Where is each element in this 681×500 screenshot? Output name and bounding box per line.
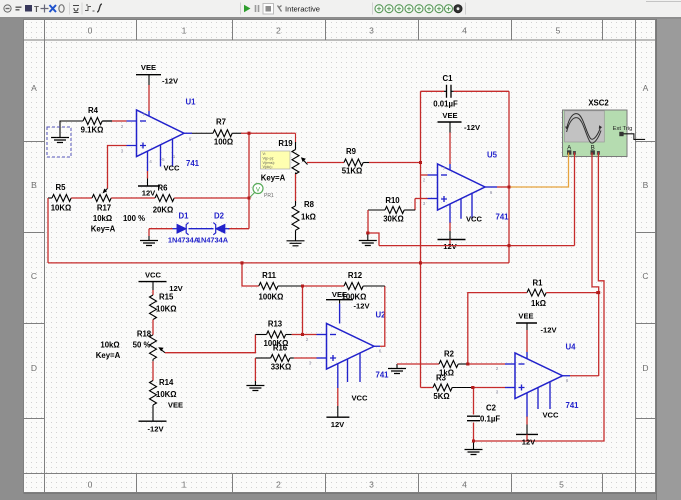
svg-text:Ext Trig: Ext Trig bbox=[613, 126, 633, 132]
wire scope B- down to ground rail bbox=[474, 153, 605, 442]
svg-text:4: 4 bbox=[462, 480, 467, 490]
svg-text:R17: R17 bbox=[97, 204, 111, 213]
svg-text:5KΩ: 5KΩ bbox=[433, 392, 449, 401]
svg-text:741: 741 bbox=[495, 213, 509, 222]
svg-text:R1: R1 bbox=[533, 279, 544, 288]
wire U5 minus pin bbox=[421, 174, 428, 176]
svg-text:R15: R15 bbox=[159, 293, 174, 302]
wire scope B+ down to U4 output bbox=[592, 153, 599, 377]
svg-text:-12V: -12V bbox=[464, 123, 481, 132]
scope trace bbox=[567, 114, 601, 140]
node: R6 wire junction bbox=[248, 197, 251, 200]
svg-text:R9: R9 bbox=[346, 147, 357, 156]
resistor R12 bbox=[303, 285, 345, 287]
svg-text:T: T bbox=[34, 5, 39, 14]
wire node down to U2 minus bbox=[302, 286, 304, 335]
U5 VEE supply bbox=[449, 164, 451, 170]
capacitor C2 bbox=[473, 388, 475, 415]
resistor R9 bbox=[344, 159, 363, 166]
wire junction down to diode net bbox=[248, 133, 250, 228]
svg-text:C: C bbox=[31, 271, 37, 281]
node bus/U5 loop bbox=[419, 261, 422, 264]
toolbar run controls bbox=[240, 3, 242, 15]
svg-text:50 %: 50 % bbox=[133, 341, 151, 350]
svg-text:12V: 12V bbox=[142, 189, 156, 198]
svg-text:6: 6 bbox=[379, 349, 382, 354]
svg-text:5: 5 bbox=[559, 480, 564, 490]
node U5 output bbox=[497, 186, 509, 188]
svg-text:B: B bbox=[591, 144, 595, 151]
svg-text:741: 741 bbox=[375, 371, 389, 380]
svg-text:1N4734A: 1N4734A bbox=[197, 236, 229, 245]
svg-text:1: 1 bbox=[182, 480, 187, 490]
resistor R13 bbox=[255, 334, 266, 336]
wire U5 bottom rail bbox=[379, 245, 575, 247]
svg-text:4: 4 bbox=[149, 159, 152, 164]
resistor R6 bbox=[155, 195, 174, 202]
node R1/scope-B bbox=[597, 291, 600, 294]
svg-text:2: 2 bbox=[276, 26, 281, 36]
capacitor C1 bbox=[421, 90, 445, 92]
wire R9 to U5 feedback vertical bbox=[369, 162, 421, 164]
svg-text:R18: R18 bbox=[137, 330, 152, 339]
wire C1 right side down to output bbox=[508, 91, 510, 263]
VEE bottom of divider bbox=[152, 405, 154, 421]
junction dots overlay bbox=[248, 132, 251, 135]
svg-text:100KΩ: 100KΩ bbox=[259, 293, 284, 302]
svg-text:D2: D2 bbox=[214, 212, 225, 221]
svg-text:100KΩ: 100KΩ bbox=[342, 293, 367, 302]
svg-text:3: 3 bbox=[309, 361, 312, 366]
U2 bottom pins / 12V bbox=[337, 364, 339, 388]
svg-text:0: 0 bbox=[88, 480, 93, 490]
svg-text:7: 7 bbox=[143, 112, 146, 117]
svg-text:Interactive: Interactive bbox=[285, 5, 320, 14]
svg-text:D: D bbox=[31, 363, 37, 373]
resistor R5 bbox=[48, 197, 52, 199]
svg-text:-12V: -12V bbox=[353, 302, 370, 311]
potentiometer R18 bbox=[150, 335, 157, 360]
svg-text:51KΩ: 51KΩ bbox=[342, 167, 363, 176]
svg-text:R3: R3 bbox=[436, 374, 447, 383]
svg-text:1N4734A: 1N4734A bbox=[168, 236, 200, 245]
resistor R7 bbox=[192, 132, 213, 134]
node R11/R12 bbox=[301, 285, 304, 288]
svg-text:R6: R6 bbox=[158, 184, 169, 193]
svg-text:100Ω: 100Ω bbox=[214, 138, 233, 147]
svg-text:U1: U1 bbox=[186, 98, 197, 107]
node R3/C2 bbox=[471, 386, 474, 389]
svg-text:R7: R7 bbox=[216, 118, 226, 127]
wire U2 minus pin bbox=[303, 334, 317, 336]
resistor R2 bbox=[397, 363, 439, 365]
svg-text:-12V: -12V bbox=[162, 77, 179, 86]
svg-text:10KΩ: 10KΩ bbox=[156, 390, 177, 399]
svg-text:4: 4 bbox=[462, 26, 467, 36]
svg-text:2: 2 bbox=[306, 337, 309, 342]
svg-text:0: 0 bbox=[88, 26, 93, 36]
wire to U4 plus bbox=[473, 387, 505, 389]
wire U1 + input from R17 wiper bbox=[108, 146, 127, 189]
ground G7 for R2 bbox=[388, 369, 406, 374]
svg-text:33KΩ: 33KΩ bbox=[271, 363, 292, 372]
node bus/R11 bbox=[241, 261, 244, 264]
wire R5 to R17 bbox=[71, 197, 92, 199]
svg-text:C: C bbox=[642, 271, 648, 281]
U1 VEE supply bbox=[148, 111, 150, 116]
svg-text:6: 6 bbox=[189, 137, 192, 142]
svg-text:VEE: VEE bbox=[442, 111, 457, 120]
wire R18 wiper to R13 bbox=[165, 335, 255, 353]
svg-text:741: 741 bbox=[186, 159, 200, 168]
resistor R14 bbox=[150, 381, 157, 406]
resistor R1 feedback bbox=[468, 293, 527, 364]
ground G4 for diodes bbox=[148, 229, 150, 236]
svg-text:2: 2 bbox=[121, 124, 124, 129]
node R9/U5 bbox=[419, 161, 422, 164]
svg-text:VCC: VCC bbox=[351, 394, 368, 403]
svg-text:0.1µF: 0.1µF bbox=[480, 415, 500, 424]
svg-text:R5: R5 bbox=[56, 183, 67, 192]
wire R19 wiper to R9 bbox=[307, 162, 344, 164]
svg-text:2: 2 bbox=[276, 480, 281, 490]
dashed selection box bbox=[47, 127, 71, 157]
svg-text:100 %: 100 % bbox=[123, 214, 145, 223]
svg-text:10KΩ: 10KΩ bbox=[156, 305, 177, 314]
wire U5 out to scope A (orange) bbox=[509, 153, 569, 188]
svg-text:C2: C2 bbox=[486, 404, 497, 413]
ground G3 bbox=[367, 233, 369, 241]
ground G6 bbox=[254, 381, 256, 386]
svg-text:1: 1 bbox=[182, 26, 187, 36]
wire R4 to U1 minus bbox=[102, 120, 112, 122]
svg-text:VCC: VCC bbox=[542, 411, 559, 420]
U5 bottom pins / 12V bbox=[449, 204, 451, 223]
wire R19 bottom to R8 bbox=[295, 174, 297, 201]
node R2/R1 bbox=[466, 363, 469, 366]
node: output junction bbox=[248, 132, 251, 135]
svg-text:D1: D1 bbox=[179, 212, 190, 221]
svg-text:Key=A: Key=A bbox=[261, 174, 286, 183]
wire R17 to R6 bbox=[111, 197, 155, 199]
toolbar icons left bbox=[4, 5, 32, 12]
svg-text:VEE: VEE bbox=[141, 63, 156, 72]
ground G5 bbox=[473, 441, 475, 450]
resistor R3 bbox=[421, 387, 434, 389]
svg-text:R4: R4 bbox=[88, 106, 99, 115]
wire diode net bbox=[149, 228, 173, 230]
ground G1 in dashed selection box bbox=[60, 121, 83, 138]
svg-text:VCC: VCC bbox=[145, 271, 162, 280]
svg-text:-12V: -12V bbox=[540, 326, 557, 335]
svg-text:5: 5 bbox=[556, 26, 561, 36]
svg-text:R10: R10 bbox=[385, 196, 400, 205]
svg-text:3: 3 bbox=[369, 480, 374, 490]
resistor R10 bbox=[414, 199, 416, 211]
svg-text:12V: 12V bbox=[522, 438, 536, 447]
svg-text:R8: R8 bbox=[304, 200, 315, 209]
svg-text:PR1: PR1 bbox=[264, 193, 274, 199]
svg-text:R16: R16 bbox=[273, 344, 288, 353]
svg-text:U4: U4 bbox=[566, 343, 577, 352]
op-amp U1 bbox=[137, 110, 185, 157]
svg-text:B: B bbox=[31, 180, 37, 190]
svg-text:0.01µF: 0.01µF bbox=[433, 100, 458, 109]
svg-text:VCC: VCC bbox=[163, 164, 180, 173]
svg-text:R19: R19 bbox=[278, 139, 293, 148]
zener diode D2 bbox=[225, 228, 230, 230]
resistor R15 bbox=[152, 290, 154, 295]
svg-text:10kΩ: 10kΩ bbox=[100, 341, 119, 350]
svg-text:B: B bbox=[643, 180, 649, 190]
svg-text:VEE: VEE bbox=[168, 401, 183, 410]
resistor R16 bbox=[255, 357, 270, 359]
svg-text:R14: R14 bbox=[159, 378, 174, 387]
svg-text:3: 3 bbox=[496, 390, 499, 395]
svg-text:C1: C1 bbox=[443, 74, 454, 83]
svg-text:12V: 12V bbox=[331, 420, 345, 429]
wire left bus down bbox=[47, 198, 49, 263]
potentiometer R17 bbox=[92, 195, 111, 202]
node C2/rail bbox=[472, 440, 475, 443]
svg-text:R2: R2 bbox=[444, 350, 455, 359]
svg-text:R11: R11 bbox=[262, 271, 277, 280]
svg-text:V(dc):: V(dc): bbox=[263, 165, 273, 169]
wire R7 to R19 bbox=[241, 132, 296, 134]
svg-text:A: A bbox=[31, 83, 37, 93]
svg-text:R13: R13 bbox=[268, 320, 283, 329]
U4 bottom pins / 12V bbox=[526, 393, 528, 417]
wire U5 input/feedback vertical bbox=[420, 91, 422, 387]
svg-text:7: 7 bbox=[443, 166, 446, 171]
svg-text:3: 3 bbox=[121, 149, 124, 154]
svg-text:XSC2: XSC2 bbox=[588, 99, 609, 108]
yellow probe tooltip bbox=[261, 151, 291, 169]
svg-text:30KΩ: 30KΩ bbox=[383, 215, 404, 224]
wire R18 to R14 bbox=[152, 361, 154, 380]
wire U4 output bbox=[570, 375, 599, 377]
wire scope A- to rail bbox=[574, 153, 576, 246]
svg-text:9.1KΩ: 9.1KΩ bbox=[81, 126, 104, 135]
svg-text:2: 2 bbox=[423, 178, 426, 183]
svg-text:6: 6 bbox=[566, 378, 569, 383]
svg-text:3: 3 bbox=[369, 26, 374, 36]
svg-text:VCC: VCC bbox=[466, 215, 483, 224]
svg-text:10KΩ: 10KΩ bbox=[51, 204, 72, 213]
wire R16 to ground bbox=[254, 358, 256, 381]
svg-text:741: 741 bbox=[565, 401, 579, 410]
node rail/loop bbox=[508, 244, 511, 247]
wire bottom bus bbox=[48, 262, 509, 264]
U1 bottom pins and 12V bbox=[147, 151, 149, 171]
svg-text:Key=A: Key=A bbox=[96, 351, 121, 360]
wire R15 to R18 bbox=[152, 320, 154, 335]
svg-text:VEE: VEE bbox=[518, 312, 533, 321]
wire U5 plus from R10 bbox=[415, 198, 428, 200]
svg-text:10kΩ: 10kΩ bbox=[93, 214, 112, 223]
svg-text:20KΩ: 20KΩ bbox=[153, 206, 174, 215]
svg-text:3: 3 bbox=[423, 201, 426, 206]
svg-text:12V: 12V bbox=[443, 242, 457, 251]
probe PR1 bbox=[250, 193, 255, 198]
svg-text:6: 6 bbox=[490, 190, 493, 195]
wire to U4 minus bbox=[468, 363, 505, 365]
wire U2 out to R12 bbox=[380, 286, 385, 346]
op-amp U4 bbox=[515, 353, 563, 399]
op-amp U2 bbox=[327, 324, 375, 370]
zener diode D1 bbox=[173, 228, 178, 230]
resistor R8 bbox=[295, 201, 297, 206]
op-amp U5 bbox=[438, 164, 486, 210]
svg-text:D: D bbox=[642, 363, 648, 373]
svg-text:R12: R12 bbox=[348, 271, 363, 280]
svg-text:U5: U5 bbox=[487, 151, 498, 160]
wire R6 to junction bbox=[174, 197, 249, 199]
svg-text:Key=A: Key=A bbox=[91, 225, 116, 234]
node U2 minus bbox=[301, 333, 304, 336]
svg-text:2: 2 bbox=[496, 366, 499, 371]
resistor R11 bbox=[242, 263, 259, 286]
resistor R4 bbox=[83, 118, 102, 125]
wire R10 to ground/rail bbox=[368, 210, 379, 246]
svg-text:-12V: -12V bbox=[147, 425, 164, 434]
svg-text:1kΩ: 1kΩ bbox=[531, 299, 546, 308]
ground G2 below R8 bbox=[295, 236, 297, 241]
potentiometer R19 bbox=[295, 133, 297, 142]
svg-text:A: A bbox=[643, 83, 649, 93]
svg-text:1kΩ: 1kΩ bbox=[301, 213, 316, 222]
toolbar icons right bbox=[372, 3, 374, 15]
